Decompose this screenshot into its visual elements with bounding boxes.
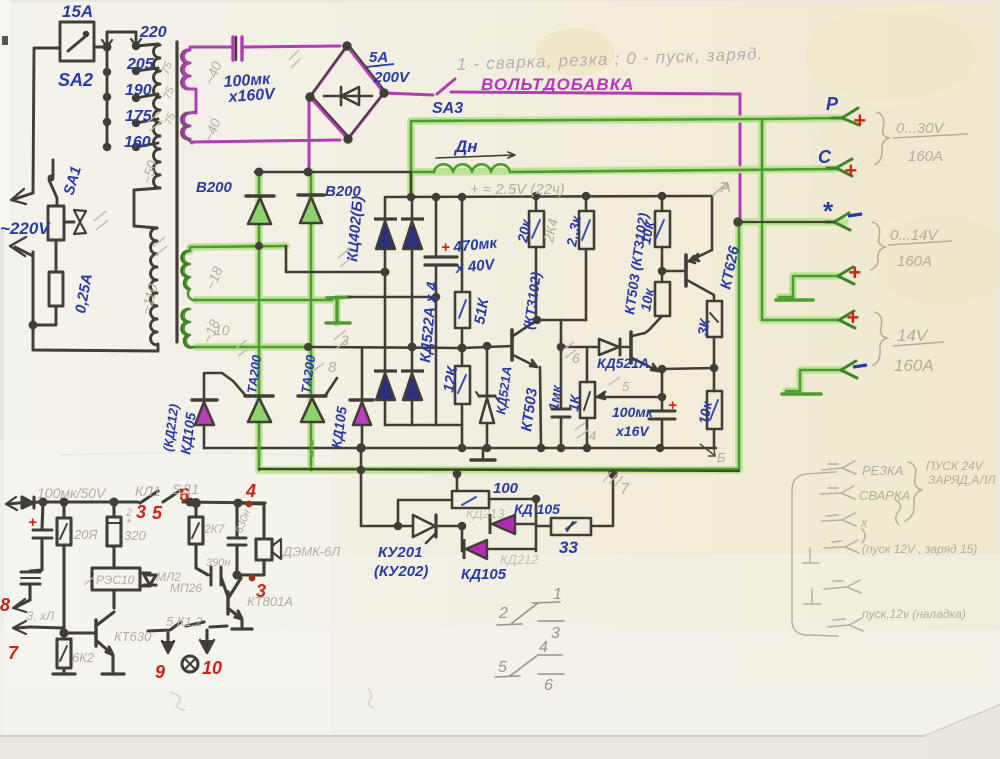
- AC feed upper to small bridge: [286, 246, 385, 272]
- right green vertical to +14 output: [762, 119, 839, 320]
- zener KD521A no.1: [486, 346, 489, 448]
- jumper h-link lower: [786, 370, 841, 391]
- main ink will be inserted here: [10, 22, 177, 351]
- resistor 6K2: [62, 628, 65, 674]
- L5 rail: [385, 424, 462, 427]
- svg-text:2: 2: [498, 605, 508, 622]
- Dn line to C output: [411, 169, 836, 172]
- svg-text:SД1: SД1: [172, 481, 199, 497]
- svg-text:100мк/50V: 100мк/50V: [37, 485, 107, 501]
- wire lower prong to transformer bottom: [33, 252, 158, 351]
- diode KD105 no.2 magenta: [350, 347, 373, 448]
- svg-text:20Я: 20Я: [73, 527, 97, 542]
- svg-text:10: 10: [214, 322, 230, 338]
- LV secondary windings halo: [190, 246, 286, 251]
- resistor 33: [536, 525, 551, 528]
- bottom of secondary wire: [195, 346, 310, 349]
- svg-text:КД521А: КД521А: [597, 355, 649, 371]
- wire capacitor to bridge top: [244, 46, 340, 47]
- 10k resistor top right: [661, 196, 664, 282]
- 100 ohm branch: [398, 500, 452, 526]
- pin pusk12: [824, 540, 859, 553]
- svg-text:320: 320: [124, 528, 146, 543]
- dark cores over green: [256, 218, 834, 471]
- svg-text:~220V: ~220V: [0, 219, 51, 238]
- diode KC402 d: [401, 369, 424, 372]
- svg-text:х160V: х160V: [227, 86, 277, 106]
- bridge rectifier diamond: [310, 46, 384, 139]
- svg-text:0...30V: 0...30V: [896, 120, 946, 137]
- svg-text:3: 3: [136, 502, 146, 522]
- emitter node to 100mk: [656, 369, 662, 448]
- svg-text:пуск,12v (наладка): пуск,12v (наладка): [862, 607, 966, 621]
- wire top of secondary: [190, 246, 286, 251]
- svg-text:15А: 15А: [62, 2, 93, 21]
- svg-text:х: х: [860, 515, 868, 530]
- Dn choke coil: [434, 164, 510, 172]
- magenta title: [481, 75, 634, 94]
- diode B200 no.2: [298, 195, 324, 223]
- pin svarka: [820, 486, 855, 499]
- svg-text:4: 4: [589, 428, 596, 443]
- tap selector bracket: [107, 32, 136, 47]
- svg-text:СВАРКА: СВАРКА: [859, 488, 910, 503]
- svg-text:SA2: SA2: [58, 70, 93, 90]
- control block wiring: [204, 169, 722, 460]
- fan symbol: [64, 221, 74, 224]
- svg-text:В200: В200: [196, 179, 233, 196]
- output forks: [832, 108, 859, 125]
- diode row node: [560, 320, 563, 347]
- svg-text:160А: 160А: [897, 253, 932, 270]
- magenta pulse diodes: [464, 514, 515, 559]
- KC402 small bridge verticals: [385, 197, 412, 425]
- selector dot column: [106, 47, 109, 148]
- diode B200 no.1: [246, 196, 274, 224]
- secondary winding ~40 (upper): [182, 50, 188, 89]
- relay RES10: [92, 568, 140, 590]
- +25V bus L2: [385, 196, 712, 218]
- input diode: [18, 502, 43, 503]
- green power wiring: [190, 118, 845, 470]
- svg-text:100мк: 100мк: [612, 404, 654, 420]
- svg-text:6: 6: [544, 677, 553, 694]
- svg-text:4: 4: [245, 481, 256, 501]
- transistor KT503 no.2: [629, 332, 633, 363]
- svg-text:КД105: КД105: [461, 566, 507, 583]
- svg-text:Б: Б: [717, 450, 726, 465]
- power diodes and thyristors: [192, 195, 373, 448]
- svg-text:С: С: [818, 147, 832, 167]
- capacitor 100mk x160V: [231, 37, 234, 60]
- diode KC402 c: [374, 369, 397, 372]
- 20k resistor: [535, 196, 538, 320]
- brace pencil output groups: [874, 112, 889, 165]
- svg-text:0...14V: 0...14V: [890, 227, 940, 244]
- wire plug to fuse: [55, 240, 58, 272]
- svg-text:160: 160: [124, 134, 151, 151]
- svg-text:160А: 160А: [894, 356, 934, 375]
- svg-text:КД212: КД212: [500, 552, 539, 567]
- green bus bottom halo: [259, 466, 739, 474]
- svg-text:+ ≈ 2.5V (22ч): + ≈ 2.5V (22ч): [470, 181, 565, 198]
- center tap link wire: [349, 296, 436, 299]
- svg-text:ЗАРЯД,АЛЛ: ЗАРЯД,АЛЛ: [928, 473, 996, 487]
- pin minus6: [828, 618, 863, 631]
- svg-text:КД213: КД213: [466, 506, 505, 521]
- green vertical to bus joint: [410, 172, 413, 197]
- tap stubs to primary winding: [136, 44, 158, 46]
- 3K resistor: [707, 301, 722, 337]
- KC402 navy diodes: [374, 219, 424, 400]
- green vertical rect.2: [310, 172, 313, 470]
- svg-text:+: +: [848, 260, 861, 285]
- fuse-switch SA2: [60, 22, 94, 61]
- top rail with input arrow: [8, 503, 18, 504]
- relay contact diagram K1.1 pencil: [495, 602, 564, 677]
- green bottom bus: [259, 468, 739, 471]
- svg-text:КУ201: КУ201: [378, 544, 422, 561]
- svg-text:+: +: [668, 397, 677, 414]
- svg-text:5: 5: [152, 503, 163, 523]
- magenta circuit: HV secondary, cap, bridge, volt-dobavka: [182, 37, 741, 222]
- svg-text:ПУСК 24V: ПУСК 24V: [926, 459, 984, 473]
- cap 320: [112, 503, 115, 568]
- svg-text:ВОЛЬТДОБАВКА: ВОЛЬТДОБАВКА: [481, 75, 634, 94]
- DEMSh capsule: [256, 539, 272, 560]
- ground: [482, 448, 485, 459]
- svg-text:КТ630: КТ630: [114, 629, 152, 644]
- ground bars: [102, 672, 124, 675]
- svg-text:5: 5: [498, 659, 507, 676]
- svg-text:Дн: Дн: [453, 137, 478, 156]
- Dn label arrow: [436, 152, 515, 158]
- diode loop verticals: [462, 499, 536, 551]
- mains upper prong arrow: [15, 193, 33, 199]
- output connector pencil drawing bottom right: [792, 461, 922, 636]
- svg-text:2К7: 2К7: [203, 522, 226, 536]
- bridge leg down to rail: [308, 97, 311, 172]
- svg-text:+: +: [846, 305, 859, 330]
- A arrow pencil: [712, 183, 727, 196]
- svg-text:5: 5: [622, 379, 630, 394]
- AC feed lower L4: [310, 346, 512, 348]
- right sub: rail to capsule: [238, 503, 264, 539]
- transistor KT801A: [226, 592, 229, 614]
- feed from green bus left: [361, 448, 413, 526]
- L6 bottom rail: [204, 447, 716, 450]
- transistor KT626: [684, 255, 688, 286]
- lamp: [182, 656, 198, 672]
- svg-text:КД 105: КД 105: [514, 501, 560, 517]
- svg-text:Р: Р: [826, 94, 839, 114]
- blue slashes in resistors: [458, 220, 718, 529]
- transistor KT503 no.1: [510, 330, 514, 360]
- link symbol: [335, 299, 338, 322]
- 470mk cap: [435, 197, 438, 425]
- resistor 2K7: [196, 503, 208, 575]
- svg-text:8: 8: [328, 359, 337, 376]
- svg-text:+: +: [844, 158, 857, 183]
- bottom-left relay block: [6, 490, 281, 674]
- svg-text:160А: 160А: [908, 148, 943, 165]
- rail from B200 cathode bus: [255, 171, 411, 174]
- diode KC402 a: [374, 217, 397, 220]
- svg-text:х16V: х16V: [615, 423, 650, 439]
- volt-dobavka line with SA3: [384, 93, 433, 95]
- diode KD105 (KD212) no.1 magenta: [192, 373, 217, 448]
- svg-text:+: +: [853, 108, 866, 133]
- wire capsule bottom to collector node: [237, 560, 264, 575]
- svg-text:14V: 14V: [897, 326, 929, 345]
- svg-text:5А: 5А: [369, 49, 388, 66]
- mains lower prong arrow: [15, 247, 33, 256]
- jumper h-link upper: [779, 276, 838, 297]
- diode KD105 lower: [466, 540, 487, 559]
- transformer core: [175, 42, 178, 342]
- hatch marks pencil: [84, 50, 623, 585]
- transistor KT630: [112, 590, 115, 608]
- Dn loop halo: [411, 118, 842, 196]
- K1.2 switch contacts: [148, 622, 181, 631]
- svg-text:РЭС10: РЭС10: [96, 573, 135, 587]
- diode KC402 b: [401, 217, 424, 220]
- switch K1.1: [140, 491, 158, 503]
- lower rail with arrow 7: [30, 627, 64, 628]
- thyristor TA200 no.2: [298, 378, 337, 422]
- mains plug body: [48, 206, 64, 240]
- thyristor TA200 no.1: [206, 373, 273, 422]
- pin x: [822, 513, 856, 526]
- switch SA1: [52, 160, 55, 176]
- red marks: [0, 108, 867, 682]
- wire SA2 left to mains vertical: [33, 48, 60, 193]
- bracket loop: [792, 472, 838, 636]
- cap 630n: [235, 504, 238, 575]
- svg-text:7: 7: [620, 481, 630, 498]
- svg-text:(КУ202): (КУ202): [374, 563, 428, 580]
- gate pulse block: [358, 448, 616, 551]
- thyristor KU201: [413, 515, 435, 537]
- svg-text:390н: 390н: [206, 557, 230, 569]
- svg-text:7: 7: [8, 643, 19, 663]
- svg-text:SA3: SA3: [432, 100, 463, 117]
- 10k resistor bottom right: [707, 391, 722, 429]
- wire winding top to capacitor: [190, 47, 231, 50]
- rectifier verticals halo: [255, 173, 263, 470]
- svg-text:8: 8: [0, 595, 10, 615]
- resistor 20R: [62, 502, 65, 627]
- svg-text:4: 4: [539, 639, 548, 656]
- pin rezka: [822, 461, 856, 474]
- electrolytic cap 100mk50V: [30, 502, 43, 600]
- svg-text:+: +: [441, 239, 450, 256]
- 1mk cap: [560, 347, 563, 448]
- LV secondary winding ~18 (lower): [184, 309, 191, 347]
- svg-text:5 К1.2: 5 К1.2: [166, 614, 203, 629]
- secondary winding ~40 (lower): [184, 113, 191, 139]
- green vertical rect.1 through B200 and TA200: [258, 172, 261, 470]
- wire winding bottom to bridge bottom: [192, 140, 340, 142]
- svg-text:200V: 200V: [373, 69, 411, 86]
- svg-text:РЕЗКА: РЕЗКА: [862, 463, 904, 478]
- svg-text:33: 33: [559, 538, 578, 557]
- 12K resistor: [461, 348, 464, 448]
- center tap wire to link: [196, 299, 332, 302]
- pin plus5: [824, 580, 861, 593]
- fuse 0.25A: [49, 272, 63, 306]
- collector link to 2..3k: [537, 319, 586, 322]
- 1K trimmer: [586, 347, 589, 448]
- svg-text:100: 100: [493, 480, 519, 497]
- svg-text:10: 10: [202, 658, 222, 678]
- diode KD105 upper: [492, 515, 515, 534]
- svg-text:ДЭМК-6Л: ДЭМК-6Л: [281, 544, 340, 559]
- 10k resistor second: [655, 282, 670, 316]
- svg-text:МП26: МП26: [170, 581, 202, 595]
- svg-text:6К2: 6К2: [72, 650, 95, 665]
- svg-text:9: 9: [155, 662, 165, 682]
- LV secondary winding ~18 (upper): [184, 251, 197, 300]
- svg-text:З, хЛ: З, хЛ: [26, 609, 55, 623]
- svg-text:КТ801А: КТ801А: [247, 594, 293, 609]
- blue handwritten labels: [0, 2, 839, 583]
- svg-text:190: 190: [125, 82, 152, 99]
- B arrow pencil: [700, 444, 715, 456]
- diode row with KD521A no.2: [561, 346, 631, 349]
- wire SA2 right to selector: [94, 46, 107, 49]
- svg-text:175: 175: [125, 108, 153, 125]
- svg-text:КЛ1: КЛ1: [135, 483, 161, 499]
- diode inside bridge: [324, 95, 372, 98]
- svg-text:+: +: [28, 514, 37, 531]
- cap 390n: [210, 567, 213, 585]
- green vertical from volt-dobavka node down to bus: [738, 222, 741, 469]
- svg-text:(пуск 12V , заряд 15): (пуск 12V , заряд 15): [862, 542, 977, 556]
- 51K resistor: [461, 197, 464, 348]
- svg-text:1: 1: [553, 586, 562, 603]
- svg-text:205: 205: [126, 56, 155, 73]
- braces: [905, 462, 922, 521]
- svg-text:220: 220: [139, 24, 167, 41]
- svg-text:3: 3: [551, 625, 560, 642]
- transformer primary winding: [154, 44, 161, 188]
- green loop top: P line: [411, 118, 842, 196]
